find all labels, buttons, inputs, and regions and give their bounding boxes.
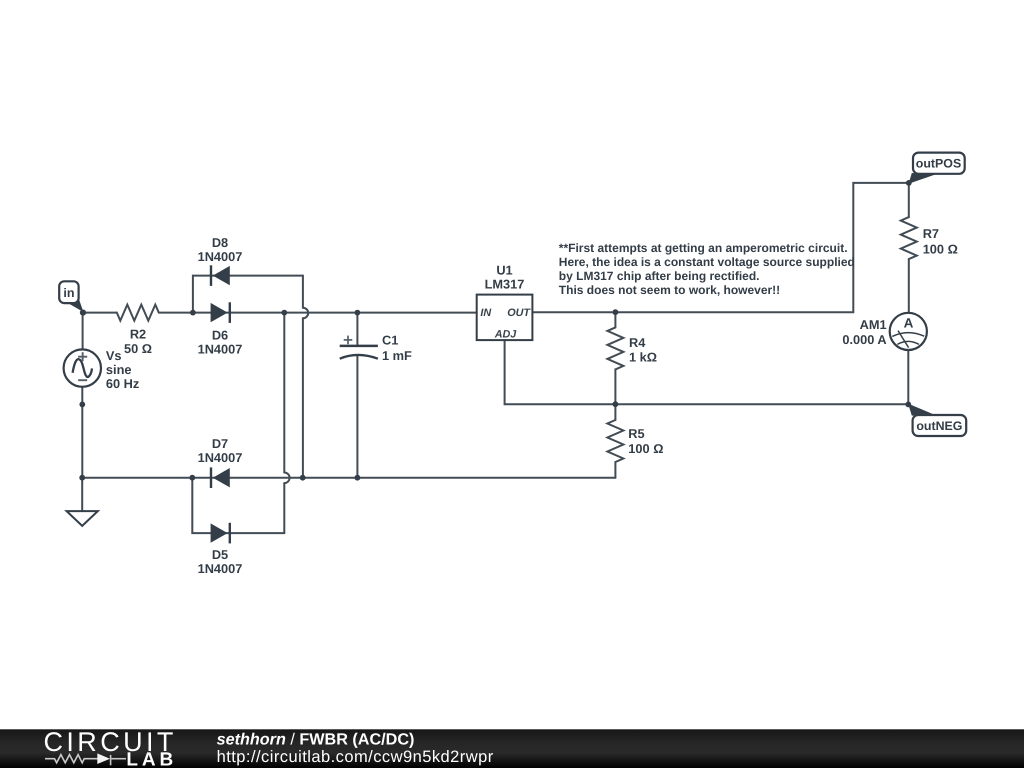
- svg-text:R7: R7: [923, 226, 939, 241]
- svg-text:**First attempts at getting an: **First attempts at getting an amperomet…: [559, 241, 848, 255]
- svg-text:100 Ω: 100 Ω: [628, 441, 663, 456]
- svg-text:outPOS: outPOS: [916, 157, 961, 171]
- svg-text:A: A: [904, 316, 914, 331]
- svg-text:sine: sine: [106, 362, 132, 377]
- svg-text:100 Ω: 100 Ω: [923, 242, 958, 257]
- svg-text:by LM317 chip after being rect: by LM317 chip after being rectified.: [559, 269, 760, 283]
- svg-text:LAB: LAB: [126, 750, 177, 768]
- svg-text:1N4007: 1N4007: [198, 561, 243, 576]
- svg-text:outNEG: outNEG: [916, 419, 962, 433]
- svg-text:0.000 A: 0.000 A: [842, 332, 886, 347]
- svg-text:C1: C1: [382, 333, 398, 348]
- svg-text:This does not seem to work, ho: This does not seem to work, however!!: [559, 283, 780, 297]
- svg-text:http://circuitlab.com/ccw9n5kd: http://circuitlab.com/ccw9n5kd2rwpr: [217, 748, 494, 766]
- svg-text:R4: R4: [629, 335, 646, 350]
- svg-text:1 kΩ: 1 kΩ: [629, 350, 657, 365]
- svg-text:LM317: LM317: [485, 277, 525, 292]
- svg-text:in: in: [63, 286, 74, 300]
- svg-text:1 mF: 1 mF: [382, 348, 412, 363]
- svg-text:D6: D6: [212, 328, 228, 343]
- svg-text:IN: IN: [480, 307, 491, 319]
- svg-text:D8: D8: [212, 235, 228, 250]
- svg-text:60 Hz: 60 Hz: [106, 376, 139, 391]
- svg-text:R5: R5: [628, 426, 644, 441]
- svg-text:AM1: AM1: [860, 317, 887, 332]
- svg-text:U1: U1: [496, 263, 512, 278]
- svg-text:1N4007: 1N4007: [198, 249, 243, 264]
- svg-text:Here, the idea is a constant v: Here, the idea is a constant voltage sou…: [559, 255, 855, 269]
- svg-text:OUT: OUT: [507, 307, 531, 319]
- svg-text:R2: R2: [130, 327, 146, 342]
- svg-text:50 Ω: 50 Ω: [124, 341, 152, 356]
- svg-text:D5: D5: [212, 547, 228, 562]
- svg-text:sethhorn / FWBR (AC/DC): sethhorn / FWBR (AC/DC): [217, 730, 415, 748]
- svg-text:1N4007: 1N4007: [198, 450, 243, 465]
- svg-text:Vs: Vs: [106, 348, 122, 363]
- svg-text:ADJ: ADJ: [494, 329, 518, 341]
- svg-text:D7: D7: [212, 436, 228, 451]
- svg-text:1N4007: 1N4007: [198, 342, 243, 357]
